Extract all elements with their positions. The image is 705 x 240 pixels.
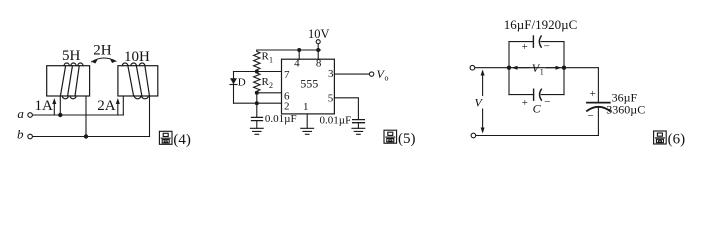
L2 right leg wire	[149, 96, 151, 137]
ground C2	[352, 128, 365, 134]
svg-text:3360µC: 3360µC	[606, 102, 645, 116]
inductor L1 winding diagonals	[60, 66, 79, 96]
bottom wire	[476, 135, 599, 137]
diode D	[230, 78, 237, 84]
wire pin3 output line	[334, 73, 369, 75]
svg-text:0.01µF: 0.01µF	[265, 113, 297, 125]
wire pin8 stub	[317, 50, 319, 59]
mutual coupling 2H arc arrow	[92, 58, 117, 62]
node R2 bottom	[255, 91, 259, 95]
wire cap C1 stub	[256, 103, 258, 117]
voltage V arrow upper	[482, 72, 484, 96]
wire a	[33, 114, 124, 116]
wire right branch	[597, 68, 599, 102]
top branch wire right	[541, 41, 564, 43]
svg-text:C: C	[533, 102, 542, 116]
junction node on wire b	[84, 134, 88, 138]
caption 圖(4)	[159, 131, 172, 144]
svg-text:16µF/1920µC: 16µF/1920µC	[504, 17, 578, 32]
wire pin7 line	[234, 71, 282, 73]
wire pin5 line	[334, 98, 358, 120]
IC 555 box	[282, 59, 335, 114]
top bus wire	[257, 49, 321, 51]
svg-text:+: +	[522, 97, 528, 109]
node pin8 bus	[316, 48, 320, 52]
svg-text:V: V	[475, 96, 484, 110]
svg-text:555: 555	[300, 76, 318, 90]
wire pin6 line	[257, 92, 282, 94]
ground C1	[250, 128, 263, 134]
svg-text:7: 7	[284, 69, 290, 81]
terminal bottom left	[471, 133, 476, 138]
svg-text:−: −	[544, 40, 550, 52]
capacitor C2 0.01uF	[353, 120, 365, 123]
svg-text:2: 2	[284, 101, 290, 113]
terminal b	[28, 134, 33, 139]
svg-text:o: o	[385, 74, 389, 83]
terminal a	[28, 113, 33, 118]
terminal top left	[470, 65, 475, 70]
top branch left vertical	[508, 42, 510, 95]
svg-text:5H: 5H	[62, 48, 81, 64]
wire pin2 line	[234, 102, 282, 104]
svg-text:3: 3	[328, 68, 334, 80]
svg-text:1: 1	[303, 101, 309, 113]
wire b	[33, 136, 150, 138]
svg-text:(5): (5)	[398, 131, 416, 147]
svg-text:5: 5	[328, 92, 334, 104]
main wire from terminal	[475, 67, 599, 69]
current arrow 1A	[53, 102, 55, 114]
svg-text:−: −	[587, 110, 593, 122]
capacitor C plates	[533, 89, 535, 100]
svg-text:D: D	[238, 76, 246, 88]
svg-text:b: b	[17, 126, 24, 141]
inductor L2 core box	[118, 66, 158, 96]
resistor R2	[254, 72, 260, 93]
svg-text:0.01µF: 0.01µF	[320, 115, 352, 127]
node pin4 bus	[297, 48, 301, 52]
svg-text:−: −	[544, 96, 550, 108]
resistor R1	[254, 50, 260, 72]
V1 right arrow	[547, 67, 559, 69]
svg-text:2: 2	[269, 81, 273, 90]
V1 left arrow	[515, 67, 529, 69]
svg-text:4: 4	[294, 57, 300, 69]
svg-text:(4): (4)	[173, 132, 191, 148]
top branch right vertical	[563, 42, 565, 95]
power rail 10V terminal	[316, 40, 320, 44]
terminal Vo	[369, 72, 373, 76]
svg-text:10V: 10V	[308, 27, 330, 41]
svg-text:(6): (6)	[668, 132, 686, 148]
capacitor C1 0.01uF	[252, 117, 263, 120]
L1 left leg wire	[59, 96, 61, 115]
svg-text:1A: 1A	[35, 98, 54, 114]
svg-text:1: 1	[540, 68, 544, 77]
capacitor 36uF plates	[587, 102, 610, 104]
bottom branch wire	[509, 94, 564, 96]
caption 圖(5)	[384, 130, 397, 143]
inductor L2 winding bottom bumps	[134, 96, 148, 99]
svg-text:+: +	[522, 41, 528, 53]
svg-text:1: 1	[269, 56, 273, 65]
svg-text:+: +	[590, 88, 596, 100]
svg-text:2A: 2A	[97, 98, 116, 114]
svg-text:8: 8	[316, 57, 322, 69]
inductor L2 winding top bumps	[122, 63, 145, 66]
L2 left leg wire	[122, 96, 124, 115]
current arrow 2A	[117, 102, 119, 114]
wire 10V stub	[317, 44, 319, 50]
inductor L2 winding diagonals	[128, 66, 150, 96]
svg-text:10H: 10H	[124, 49, 150, 65]
diode branch wire	[233, 72, 235, 104]
node pin2/cap	[255, 101, 259, 105]
L1 right leg wire	[85, 96, 87, 137]
capacitor 16uF plates	[532, 36, 534, 47]
node R1 bottom	[255, 70, 259, 74]
wire pin6-pin2 link	[256, 93, 258, 103]
node V1 left	[507, 66, 511, 70]
wire below 36uF	[597, 108, 599, 136]
ground pin1	[301, 128, 314, 134]
voltage V arrow lower	[482, 109, 484, 132]
inductor L1 winding bottom bumps	[62, 96, 76, 99]
svg-text:2H: 2H	[93, 42, 112, 58]
svg-text:a: a	[17, 106, 24, 121]
node V1 right	[562, 66, 566, 70]
inductor L1 core box	[47, 66, 90, 96]
wire pin4 stub	[298, 50, 300, 59]
junction node on wire a	[58, 113, 62, 117]
top branch wire left	[509, 41, 533, 43]
caption 圖(6)	[654, 131, 667, 144]
inductor L1 winding top bumps	[64, 63, 83, 66]
wire pin1 ground stub	[306, 114, 308, 128]
